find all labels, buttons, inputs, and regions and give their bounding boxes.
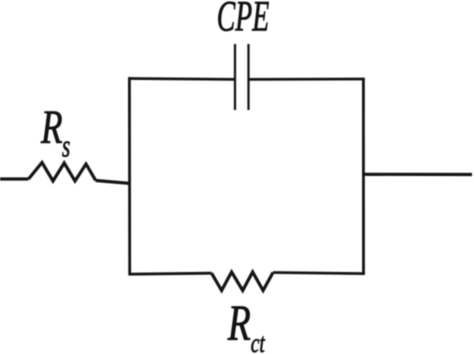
label Rs [40, 101, 70, 164]
svg-text:s: s [62, 128, 70, 163]
wire box left edge [128, 77, 131, 275]
svg-text:R: R [227, 294, 251, 351]
capacitor CPE (constant phase element plates) [235, 44, 249, 110]
wire box bottom edge left segment [129, 273, 212, 274]
wire from Rs to box [96, 181, 131, 184]
label Rct [227, 294, 265, 354]
resistor Rct [212, 272, 273, 291]
wire box top edge right segment [249, 78, 365, 81]
svg-text:ct: ct [251, 329, 265, 354]
wire box bottom edge right segment [273, 273, 365, 274]
wire left lead [0, 177, 29, 180]
wire right lead [362, 173, 472, 176]
svg-text:R: R [40, 101, 63, 155]
wire box top edge left segment [128, 77, 235, 81]
svg-text:CPE: CPE [217, 0, 269, 40]
resistor Rs [29, 163, 96, 182]
wire box right edge [362, 78, 365, 275]
